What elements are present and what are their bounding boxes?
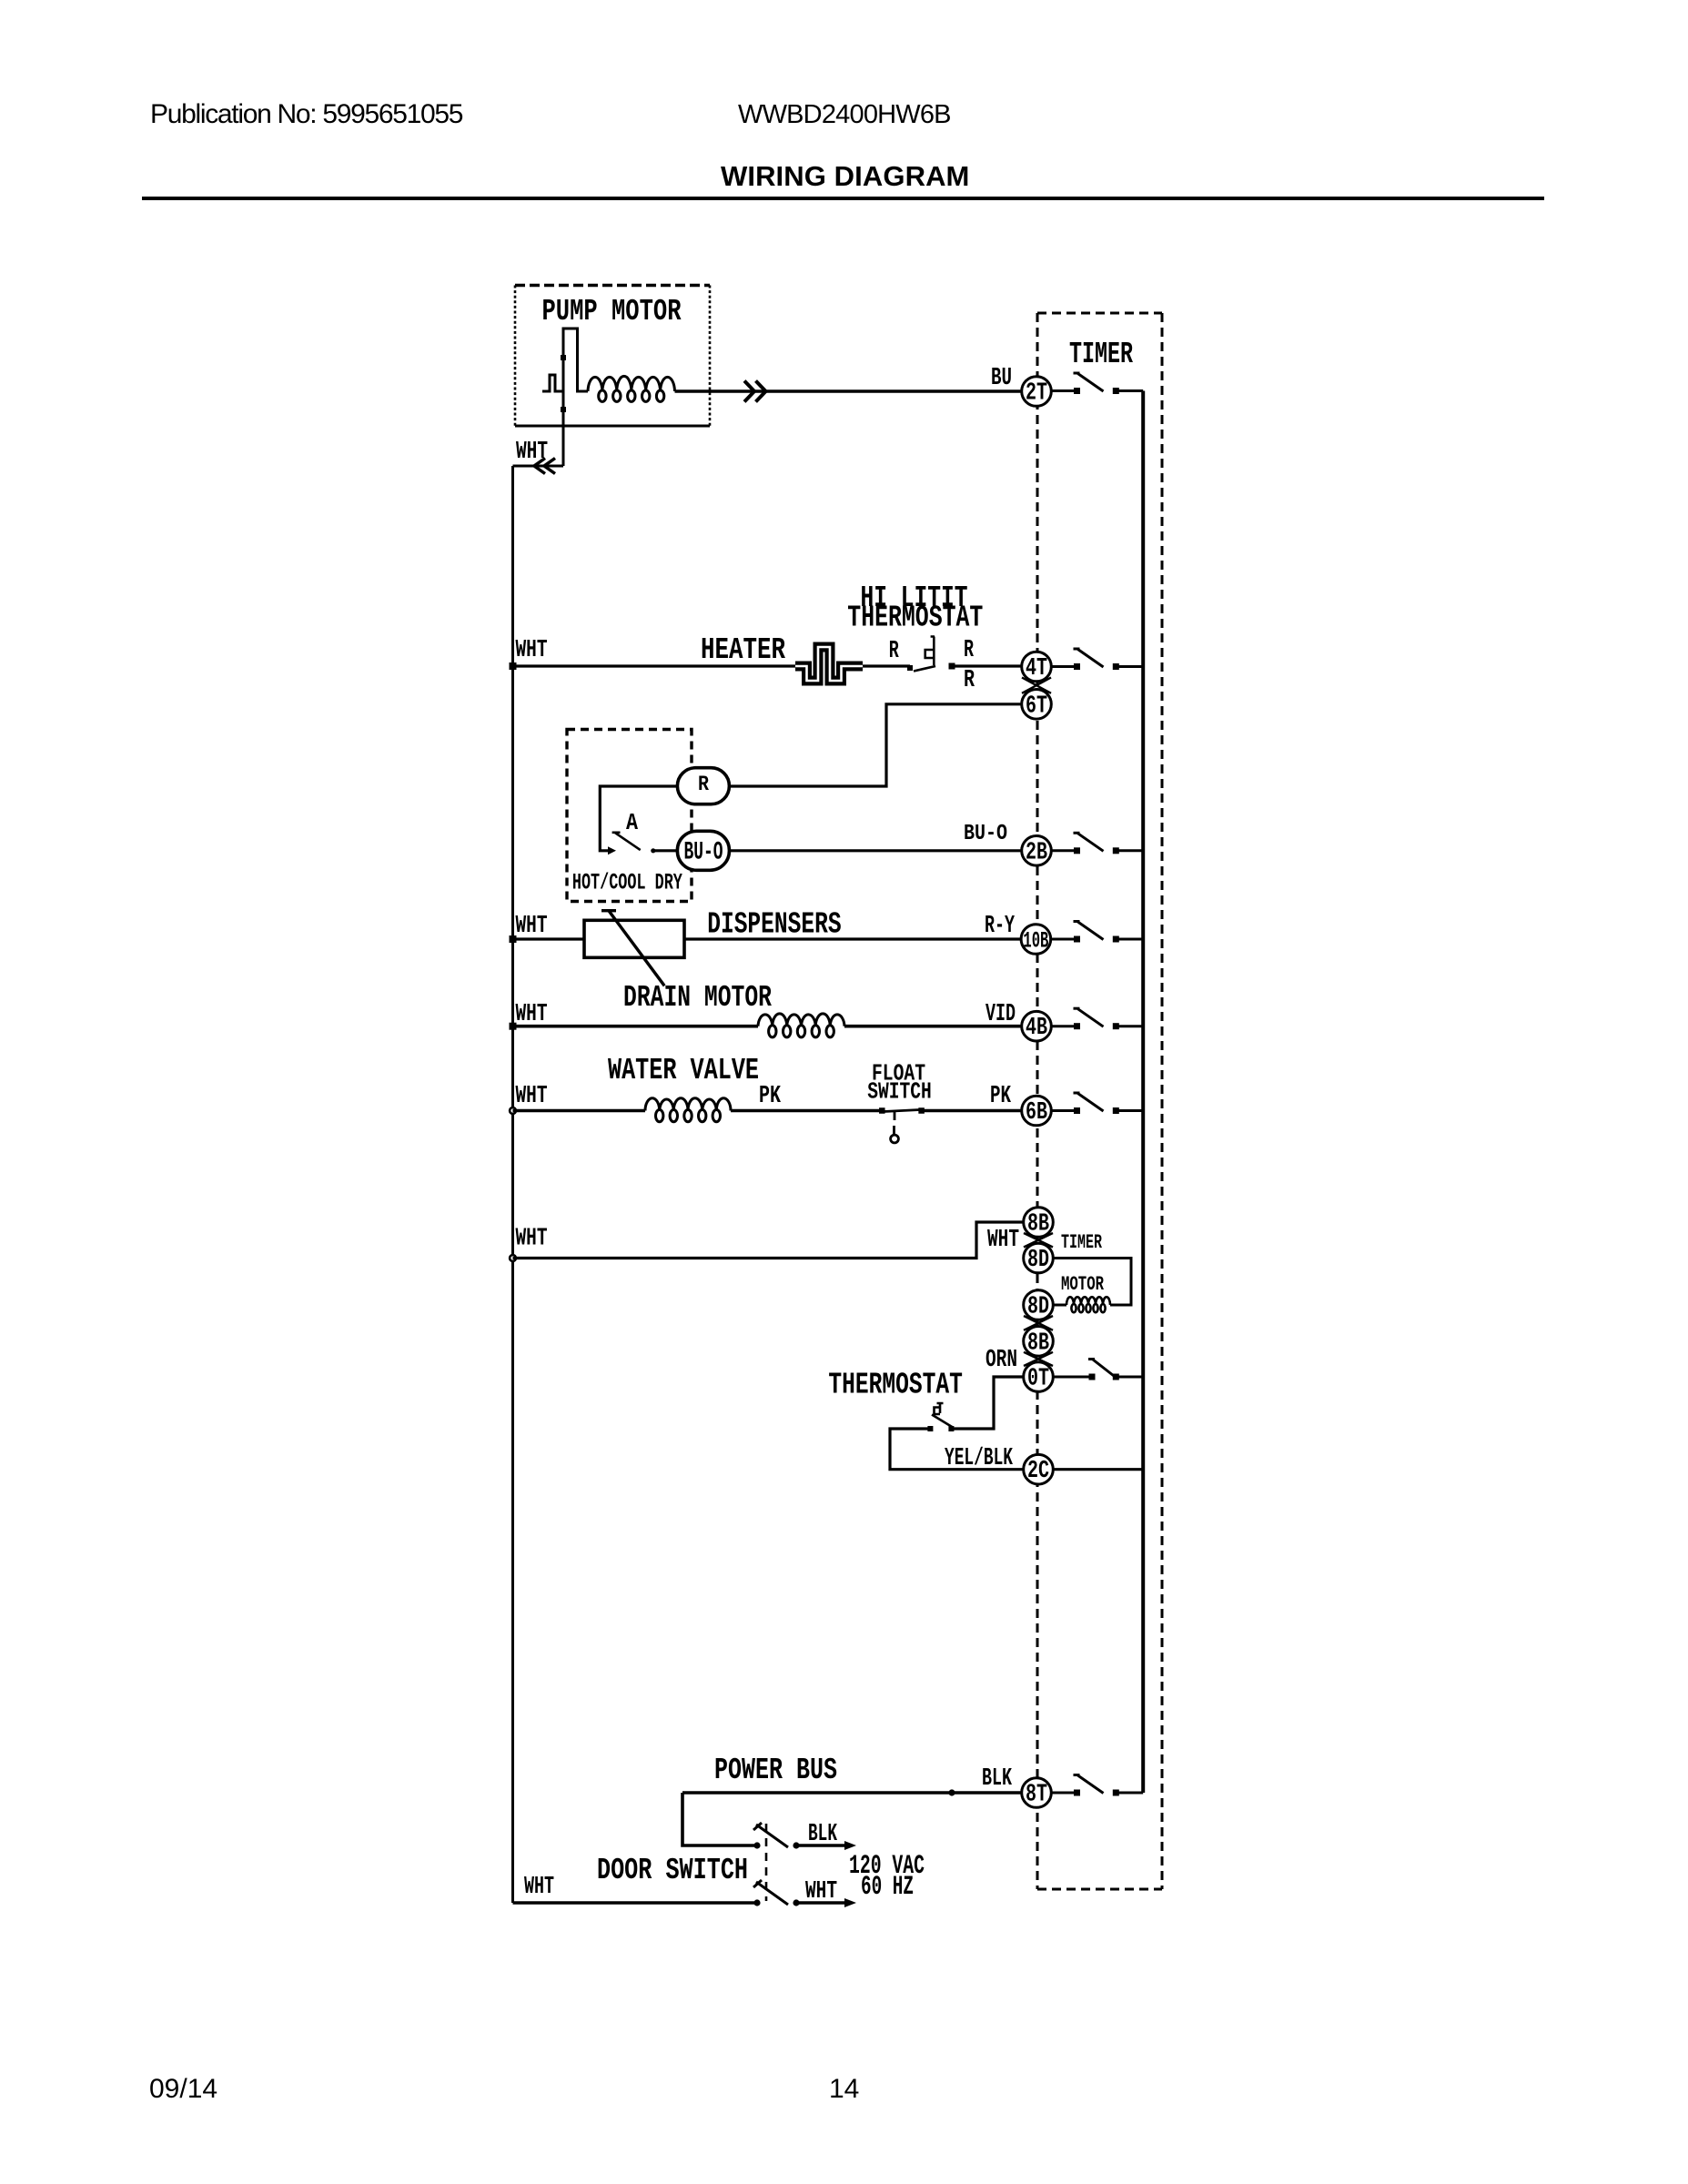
- svg-text:6T: 6T: [1026, 693, 1047, 720]
- timer switch 4T: [1051, 649, 1143, 670]
- svg-text:10B: 10B: [1023, 928, 1048, 955]
- svg-text:8B: 8B: [1027, 1211, 1049, 1239]
- svg-text:PK: PK: [990, 1083, 1012, 1110]
- terminal 8D (lower): [1024, 1290, 1054, 1321]
- wire dispenser to 10B: [684, 937, 1022, 940]
- label MOTOR (small): [1061, 1273, 1105, 1296]
- svg-text:R: R: [698, 773, 709, 796]
- label R (right of hi-limit): [964, 637, 975, 664]
- label R (6T wire): [964, 667, 975, 694]
- junction power bus: [948, 1789, 955, 1795]
- wire float switch to 6B: [922, 1109, 1022, 1113]
- svg-text:WHT: WHT: [524, 1874, 554, 1901]
- label SWITCH (float): [867, 1078, 932, 1106]
- timer switch 6B: [1051, 1093, 1143, 1114]
- hi-limit thermostat switch: [907, 637, 955, 672]
- wire heater to hi-limit: [863, 664, 910, 667]
- svg-text:DRAIN MOTOR: DRAIN MOTOR: [623, 981, 772, 1015]
- svg-text:POWER BUS: POWER BUS: [714, 1754, 837, 1787]
- label BU-O (wire): [964, 822, 1007, 846]
- svg-text:YEL/BLK: YEL/BLK: [945, 1445, 1014, 1472]
- label THERMOSTAT: [828, 1369, 963, 1402]
- pump motor box: [515, 286, 710, 427]
- terminal 0T: [1024, 1362, 1054, 1393]
- wire thermostat to 2C: [890, 1429, 1024, 1470]
- svg-text:HOT/COOL DRY: HOT/COOL DRY: [572, 870, 682, 896]
- svg-text:8B: 8B: [1027, 1330, 1049, 1357]
- arrow to 120 VAC (WHT): [796, 1898, 856, 1907]
- timer switch 10B: [1051, 922, 1143, 943]
- crossover 4T-6T: [1022, 678, 1051, 693]
- wire left bus to 8B: [513, 1222, 1024, 1259]
- svg-text:0T: 0T: [1027, 1366, 1049, 1393]
- label A: [626, 809, 638, 836]
- svg-text:R-Y: R-Y: [985, 913, 1016, 940]
- pump motor junction dots: [561, 355, 566, 412]
- svg-text:DOOR SWITCH: DOOR SWITCH: [597, 1854, 748, 1887]
- terminal 8B (upper): [1024, 1208, 1054, 1239]
- terminal 8T: [1022, 1778, 1052, 1809]
- svg-text:A: A: [626, 809, 638, 836]
- label TIMER (small): [1061, 1231, 1103, 1254]
- header: publication number: [150, 99, 462, 130]
- svg-text:BLK: BLK: [982, 1765, 1013, 1793]
- footer: page number: [829, 2074, 859, 2105]
- label DRAIN MOTOR: [623, 981, 772, 1015]
- wire hi-limit to 4T: [952, 664, 1022, 667]
- svg-text:WHT: WHT: [516, 637, 548, 664]
- drain motor coil: [758, 1014, 844, 1037]
- label WHT (pump return): [516, 439, 548, 466]
- svg-text:PUMP MOTOR: PUMP MOTOR: [542, 295, 682, 329]
- header: model number: [738, 100, 951, 130]
- label WHT (water valve row): [516, 1083, 548, 1110]
- label WHT (heater row): [516, 637, 548, 664]
- timer label: [1069, 338, 1133, 371]
- dispenser diagonal stroke: [601, 911, 664, 986]
- label WATER VALVE: [608, 1054, 759, 1087]
- timer switch 0T: [1053, 1360, 1143, 1380]
- pump motor start winding pulse: [542, 329, 588, 466]
- wire left bus to dispenser: [513, 937, 585, 940]
- svg-text:TIMER: TIMER: [1069, 338, 1133, 371]
- svg-text:WHT: WHT: [516, 439, 548, 466]
- label DISPENSERS: [707, 908, 842, 942]
- label 60 HZ: [861, 1872, 914, 1903]
- header: WIRING DIAGRAM title: [721, 160, 969, 193]
- terminal 2B: [1022, 836, 1052, 867]
- junction heater row: [510, 662, 517, 670]
- left bus wire (WHT): [511, 466, 514, 1903]
- svg-text:WHT: WHT: [516, 1001, 548, 1028]
- wire pump motor to timer 2T: [675, 389, 1023, 393]
- svg-text:THERMOSTAT: THERMOSTAT: [828, 1369, 963, 1402]
- crossover 8D-8B lower: [1024, 1316, 1053, 1330]
- wire 0T to thermostat: [951, 1377, 1023, 1429]
- wire drain coil to 4B: [844, 1025, 1022, 1028]
- label WHT (door switch): [805, 1878, 837, 1906]
- svg-text:BU-O: BU-O: [964, 822, 1007, 846]
- svg-text:R: R: [889, 638, 900, 665]
- timer dashed box: [1037, 313, 1162, 1889]
- svg-text:2B: 2B: [1026, 839, 1047, 866]
- wire power bus to door switch: [682, 1793, 757, 1845]
- label BLK (power bus): [982, 1765, 1013, 1793]
- junction water valve row: [510, 1107, 516, 1114]
- junction drain row: [510, 1023, 517, 1030]
- svg-text:BU-O: BU-O: [684, 839, 723, 867]
- door switch BLK contact: [753, 1823, 800, 1849]
- svg-text:TIMER: TIMER: [1061, 1231, 1103, 1254]
- footer: date: [149, 2074, 217, 2105]
- label THERMOSTAT (hi limit): [847, 602, 983, 635]
- svg-text:WHT: WHT: [987, 1227, 1019, 1254]
- pump motor label: [542, 295, 682, 329]
- timer motor coil: [1066, 1297, 1110, 1312]
- label HI LITIT: [861, 581, 968, 615]
- timer switch 4B: [1051, 1008, 1143, 1029]
- right bus wire: [1141, 391, 1145, 1794]
- label HEATER: [701, 633, 785, 667]
- label WHT (bottom left): [524, 1874, 554, 1901]
- wire left bus to door switch WHT: [513, 1901, 758, 1905]
- crossover 8B-0T: [1024, 1352, 1053, 1366]
- svg-text:THERMOSTAT: THERMOSTAT: [847, 602, 983, 635]
- svg-text:SWITCH: SWITCH: [867, 1078, 932, 1106]
- wire 8D to timer motor: [1053, 1259, 1131, 1306]
- svg-text:WHT: WHT: [516, 1083, 548, 1110]
- svg-text:8D: 8D: [1027, 1294, 1049, 1321]
- label DOOR SWITCH: [597, 1854, 748, 1887]
- label 120 VAC: [849, 1851, 925, 1882]
- svg-text:DISPENSERS: DISPENSERS: [707, 908, 842, 942]
- wire 2C to right bus: [1053, 1468, 1143, 1471]
- label PK (right): [990, 1083, 1012, 1110]
- terminal 8D (upper): [1024, 1243, 1054, 1274]
- door switch WHT contact: [753, 1880, 800, 1906]
- label POWER BUS: [714, 1754, 837, 1787]
- junction long WHT row: [510, 1255, 516, 1261]
- label BLK (door switch): [808, 1821, 838, 1848]
- svg-text:WHT: WHT: [516, 1226, 548, 1253]
- hot/cool dry switch A: [608, 833, 677, 855]
- float switch: [879, 1107, 925, 1143]
- terminal 4B: [1022, 1011, 1052, 1042]
- wire power bus: [682, 1791, 1022, 1795]
- svg-text:4T: 4T: [1026, 655, 1047, 682]
- wire timer motor coil to 8D lower: [1053, 1304, 1066, 1307]
- thermostat switch: [927, 1403, 954, 1431]
- svg-text:R: R: [964, 637, 975, 664]
- wire BU-O to 2B: [730, 849, 1023, 852]
- wire left bus to water valve coil: [513, 1109, 646, 1113]
- label BU: [991, 365, 1012, 392]
- svg-text:BLK: BLK: [808, 1821, 838, 1848]
- label R (left of hi-limit): [889, 638, 900, 665]
- arrow to 120 VAC (BLK): [796, 1841, 856, 1850]
- label WHT (dispensers row): [516, 913, 548, 940]
- dispenser element box: [584, 920, 684, 957]
- svg-text:BU: BU: [991, 365, 1012, 392]
- svg-text:MOTOR: MOTOR: [1061, 1273, 1105, 1296]
- timer switch 8T: [1051, 1775, 1143, 1796]
- terminal 6B: [1022, 1096, 1052, 1127]
- water valve coil: [645, 1098, 731, 1122]
- svg-text:60 HZ: 60 HZ: [861, 1872, 914, 1903]
- wire pump motor return: [513, 465, 564, 468]
- hot/cool dry dashed box: [567, 730, 692, 902]
- label HOT/COOL DRY: [572, 870, 682, 896]
- label FLOAT: [872, 1060, 925, 1087]
- terminal 2T: [1022, 377, 1052, 408]
- svg-text:WHT: WHT: [805, 1878, 837, 1906]
- label ORN: [986, 1347, 1017, 1374]
- svg-text:PK: PK: [759, 1083, 782, 1110]
- label PK (left): [759, 1083, 782, 1110]
- timer switch 2B: [1051, 833, 1143, 854]
- svg-text:8D: 8D: [1027, 1247, 1049, 1274]
- pump motor main winding coil: [588, 376, 675, 401]
- svg-text:WHT: WHT: [516, 913, 548, 940]
- svg-text:2T: 2T: [1026, 380, 1047, 408]
- label VID: [986, 1001, 1016, 1028]
- label WHT (drain row): [516, 1001, 548, 1028]
- header rule: [142, 197, 1544, 200]
- wire left bus to drain coil: [513, 1025, 759, 1028]
- svg-text:8T: 8T: [1026, 1782, 1047, 1809]
- direction arrow left (WHT wire): [534, 459, 555, 474]
- crossover 8B-8D: [1024, 1233, 1053, 1248]
- label R-Y: [985, 913, 1016, 940]
- heater element: [795, 647, 863, 681]
- timer switch 2T: [1051, 373, 1143, 394]
- terminal 4T: [1022, 652, 1052, 682]
- svg-text:6B: 6B: [1026, 1099, 1047, 1127]
- svg-text:2C: 2C: [1027, 1458, 1049, 1485]
- svg-text:HEATER: HEATER: [701, 633, 785, 667]
- terminal 8B (lower): [1024, 1327, 1054, 1358]
- door switch mechanical link: [765, 1824, 768, 1901]
- label WHT (long row): [516, 1226, 548, 1253]
- svg-text:VID: VID: [986, 1001, 1016, 1028]
- wire 6T to R coil: [730, 704, 1023, 786]
- junction dispensers row: [510, 935, 517, 943]
- direction arrow right (BU wire): [744, 381, 766, 402]
- svg-text:R: R: [964, 667, 975, 694]
- svg-text:ORN: ORN: [986, 1347, 1017, 1374]
- label YEL/BLK: [945, 1445, 1014, 1472]
- relay contact R oval: [677, 768, 729, 804]
- svg-text:WATER VALVE: WATER VALVE: [608, 1054, 759, 1087]
- wire water valve coil to float switch: [731, 1109, 882, 1113]
- terminal 2C: [1024, 1454, 1054, 1485]
- terminal 10B: [1021, 925, 1051, 955]
- wire R oval to A switch: [600, 786, 677, 851]
- svg-text:4B: 4B: [1026, 1015, 1047, 1042]
- wire left bus to heater: [513, 664, 796, 667]
- label WHT (at 8B): [987, 1227, 1019, 1254]
- terminal 6T: [1022, 690, 1052, 721]
- relay contact BU-O oval: [677, 831, 729, 870]
